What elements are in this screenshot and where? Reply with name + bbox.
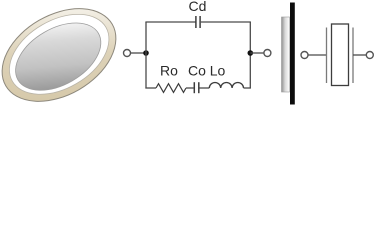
wire node B to right terminal	[250, 52, 263, 54]
svg-text:Lo: Lo	[210, 63, 226, 79]
wire bottom rail left	[145, 87, 156, 89]
svg-text:Co: Co	[188, 63, 206, 79]
node A junction dot	[143, 50, 149, 56]
wire Lo to right vertical	[244, 87, 251, 89]
capacitor Co	[194, 82, 199, 93]
disc side view: ceramic black bar	[290, 3, 295, 105]
wire left terminal to node A	[131, 52, 147, 54]
crystal left plate	[326, 28, 328, 84]
crystal terminal circle left	[301, 52, 308, 59]
crystal body rectangle	[332, 24, 349, 86]
disc outer tan ring	[0, 0, 132, 120]
svg-text:Ro: Ro	[160, 63, 178, 79]
svg-text:Cd: Cd	[189, 0, 207, 14]
wire Co to Lo	[200, 87, 210, 89]
wire right vertical	[249, 22, 251, 89]
wire to crystal left plate	[308, 54, 327, 56]
disc white ring	[0, 0, 123, 111]
wire left vertical	[145, 22, 147, 89]
crystal terminal circle right	[366, 52, 373, 59]
left terminal circle	[124, 50, 131, 57]
wire crystal right plate to terminal	[353, 54, 366, 56]
node B junction dot	[248, 50, 254, 56]
wire resistor to Co	[186, 87, 194, 89]
disc metal electrode	[4, 9, 113, 104]
inductor Lo	[209, 83, 243, 89]
wire top rail left	[145, 21, 195, 23]
piezo disc photo (left)	[0, 0, 132, 120]
crystal right plate	[352, 28, 354, 84]
capacitor Cd	[196, 16, 200, 28]
disc side view: electrode gradient strip	[282, 17, 290, 92]
resistor Ro	[156, 84, 186, 93]
right terminal circle	[264, 50, 271, 57]
wire top rail right	[201, 21, 251, 23]
